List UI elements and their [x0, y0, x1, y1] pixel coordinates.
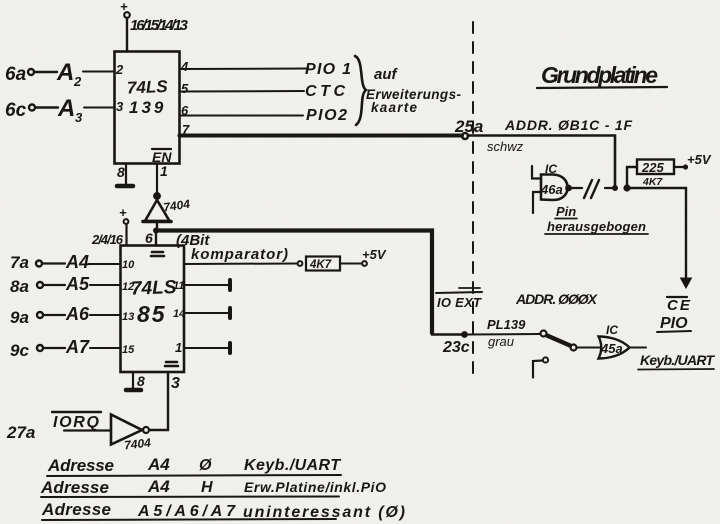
- stub end tick pin 1: [228, 343, 232, 353]
- junction node at pull-up R1: [612, 184, 631, 191]
- net label IO EXT (active low): [436, 288, 482, 310]
- net label A2: [56, 59, 82, 89]
- terminal circle at resistor R2 left: [298, 261, 303, 266]
- connector terminal 9a: [10, 308, 43, 327]
- ground at U2 pin 8: [126, 388, 141, 393]
- svg-text:3: 3: [75, 110, 83, 125]
- EN label (active-low enable) of U1: [152, 149, 172, 165]
- wire 6c to A3: [36, 106, 59, 108]
- svg-text:auf: auf: [374, 66, 399, 83]
- net label Keyb./UART: [638, 352, 715, 370]
- annotation Pin herausgebogen: [545, 204, 648, 234]
- svg-text:CTC: CTC: [305, 83, 347, 100]
- bent-out input pin bottom of U3: [533, 192, 541, 213]
- svg-text:74LS: 74LS: [131, 277, 177, 300]
- wire 9c to A7: [44, 347, 66, 349]
- wire VCC to U2 pins 2/4/16: [125, 224, 127, 246]
- wire U2 A=B output to pull-up resistor: [184, 263, 297, 266]
- svg-text:Grundplatine: Grundplatine: [541, 62, 658, 88]
- svg-text:IC: IC: [606, 323, 618, 337]
- svg-text:8: 8: [117, 164, 125, 180]
- wire U2 pin 14 stub: [184, 312, 228, 314]
- wire A2 to U1 pin 2: [83, 71, 115, 73]
- IC U2 74LS85: [121, 246, 185, 373]
- wire A4 to U2 pin 10: [88, 263, 121, 265]
- svg-text:74LS: 74LS: [127, 77, 169, 97]
- wire R1 to +5V: [674, 166, 683, 168]
- svg-text:+: +: [119, 205, 127, 220]
- wire U2 pin 3 down to inverter U6 output: [150, 372, 168, 430]
- table row 1: Adresse A4 0 Keyb./UART: [47, 455, 341, 476]
- svg-text:11: 11: [173, 280, 184, 292]
- thick wire from U5 to corner and down to node 23c: [157, 231, 432, 334]
- connector terminal 8a: [10, 277, 43, 296]
- node 23c: [461, 331, 468, 338]
- svg-text:schwz: schwz: [487, 139, 524, 154]
- +5V terminal at R2: [362, 247, 387, 266]
- wire U1 pin 8 to ground: [125, 164, 127, 185]
- wire 7a to A4: [43, 262, 66, 264]
- svg-text:CE: CE: [667, 297, 692, 314]
- wire U1 pin 4 to PIO 1: [180, 68, 309, 71]
- connector terminal 6c: [5, 100, 35, 121]
- IC U1 74LS139: [115, 52, 180, 164]
- NAND gate U3 46a (pins bent out): [540, 175, 572, 201]
- svg-text:23c: 23c: [442, 339, 470, 356]
- svg-text:3: 3: [116, 99, 124, 114]
- node 25a (open circle): [462, 133, 468, 139]
- svg-text:PIO 1: PIO 1: [305, 61, 351, 78]
- net label IORQ (active low): [52, 412, 101, 431]
- svg-text:8: 8: [137, 373, 145, 389]
- wire U1 pin 6 to PIO2: [180, 115, 304, 117]
- wire break to junction: [605, 187, 615, 189]
- svg-text:Erw.Platine/inkl.PiO: Erw.Platine/inkl.PiO: [244, 479, 386, 495]
- wire inverter U5 input down to thick bus: [156, 221, 158, 230]
- ground at U1 pin 8: [117, 184, 133, 189]
- thick wire U1 pin 7 to node 25a: [180, 134, 463, 138]
- svg-text:Pin: Pin: [556, 204, 576, 219]
- wire IORQ to inverter U6: [64, 429, 111, 431]
- svg-text:13: 13: [122, 311, 134, 323]
- table row 3: Adresse A5/A6/A7 uninteressant (0): [41, 500, 405, 521]
- arrowhead to CE of PIO: [681, 278, 692, 288]
- svg-text:45a: 45a: [600, 341, 623, 356]
- svg-text:4K7: 4K7: [309, 259, 332, 271]
- label PIO: [657, 315, 691, 332]
- svg-text:6: 6: [145, 230, 153, 246]
- svg-text:A: A: [57, 95, 75, 122]
- svg-text:25a: 25a: [454, 117, 483, 136]
- svg-text:4K7: 4K7: [642, 176, 663, 188]
- svg-text:komparator): komparator): [191, 246, 288, 263]
- svg-text:225: 225: [641, 160, 664, 175]
- svg-text:2: 2: [115, 62, 124, 77]
- svg-text:PIO2: PIO2: [306, 107, 347, 124]
- svg-text:27a: 27a: [6, 423, 35, 442]
- svg-text:grau: grau: [488, 334, 514, 349]
- svg-text:46a: 46a: [540, 182, 563, 197]
- bent-out input pin top of U3: [532, 166, 541, 179]
- wire A6 to U2 pin 13: [90, 314, 121, 316]
- svg-text:kaarte: kaarte: [371, 100, 417, 115]
- svg-text:herausgebogen: herausgebogen: [547, 219, 646, 234]
- wire U4 output: [630, 347, 647, 349]
- svg-text:4: 4: [180, 59, 189, 74]
- wire U1 pin 1 to inverter output: [156, 164, 158, 195]
- table row 2: Adresse A4 H Erw.Platine/inkl.PiO: [40, 477, 386, 497]
- wire A3 to U1 pin 3: [84, 107, 115, 109]
- svg-text:1: 1: [160, 163, 168, 179]
- wire R2 to +5V: [340, 263, 362, 265]
- svg-text:A4: A4: [147, 477, 170, 496]
- +5V terminal at R1: [683, 152, 712, 170]
- wire node 25a to corner: [468, 136, 615, 187]
- wire junction to CE arrow: [627, 188, 686, 281]
- +5V power terminal at U1 top: [120, 0, 130, 18]
- annotation auf Erweiterungs-kaarte: [366, 66, 462, 115]
- svg-text:2/4/16: 2/4/16: [91, 232, 124, 247]
- svg-text:9a: 9a: [10, 308, 29, 327]
- svg-text:1: 1: [175, 340, 182, 355]
- annotation (4Bit komparator): [176, 232, 288, 263]
- svg-text:A4: A4: [147, 455, 170, 474]
- switch S1 blade (thick): [547, 336, 570, 346]
- wire thick bus to U2 pin 6: [155, 231, 157, 246]
- wire A5 to U2 pin 12: [90, 284, 121, 286]
- svg-text:A7: A7: [65, 337, 90, 357]
- wire U2 pin 8 to ground: [132, 372, 134, 388]
- wire 6a to A2: [35, 71, 58, 73]
- svg-text:A4: A4: [65, 252, 89, 272]
- switch S1 alternate contact (open): [533, 357, 548, 377]
- svg-text:Adresse: Adresse: [41, 500, 111, 519]
- net label A3: [57, 95, 83, 125]
- wire node 23c to switch: [468, 333, 540, 336]
- svg-text:6a: 6a: [5, 64, 27, 85]
- connector terminal 7a: [10, 253, 42, 272]
- svg-text:12: 12: [122, 281, 134, 293]
- svg-text:Keyb./UART: Keyb./UART: [244, 457, 341, 474]
- wire VCC to U1 pins 16/15/14/13: [126, 18, 128, 52]
- svg-text:139: 139: [129, 98, 166, 117]
- wire U2 pin 1 stub: [184, 347, 228, 349]
- svg-text:7a: 7a: [10, 253, 29, 272]
- svg-text:10: 10: [122, 259, 135, 271]
- svg-text:15: 15: [122, 344, 135, 356]
- title Grundplatine: [537, 62, 667, 88]
- wire U1 pin 5 to CTC: [180, 90, 305, 93]
- svg-text:A5: A5: [65, 274, 90, 294]
- svg-text:2: 2: [73, 74, 82, 89]
- svg-text:6c: 6c: [5, 100, 27, 121]
- svg-text:H: H: [201, 479, 213, 496]
- net label CE (active low): [667, 297, 692, 314]
- wire U2 pin 11 stub: [184, 284, 228, 286]
- svg-text:PL139: PL139: [487, 317, 526, 332]
- svg-text:IO EXT: IO EXT: [437, 295, 482, 310]
- junction dot at U2 pin 6 tap: [153, 228, 159, 234]
- svg-text:7404: 7404: [123, 436, 151, 453]
- wire A7 to U2 pin 15: [90, 347, 121, 349]
- svg-text:85: 85: [137, 301, 167, 327]
- svg-text:3: 3: [171, 375, 180, 392]
- OR gate U4 45a: [599, 337, 630, 359]
- wire junction to R1: [627, 167, 637, 188]
- svg-text:16/15/14/13: 16/15/14/13: [130, 17, 189, 34]
- wire 9a to A6: [44, 314, 66, 316]
- svg-text:5: 5: [181, 81, 189, 96]
- svg-text:A: A: [56, 59, 74, 86]
- svg-text:Adresse: Adresse: [47, 456, 114, 475]
- svg-text:Ø: Ø: [199, 457, 212, 474]
- svg-text:Keyb./UART: Keyb./UART: [640, 352, 715, 368]
- wire break marks //: [584, 180, 599, 198]
- dashed separator line between boards: [472, 22, 474, 374]
- svg-text:A6: A6: [65, 304, 90, 324]
- resistor R2 4K7: [306, 257, 340, 272]
- wire switch to OR gate U4: [577, 347, 600, 349]
- wire corner to node 23c: [432, 333, 461, 336]
- brace grouping PIO1/CTC/PIO2: [355, 56, 366, 125]
- resistor R1 225 / 4K7: [637, 160, 674, 189]
- +5V power terminal at U2 top: [119, 205, 128, 224]
- svg-text:8a: 8a: [10, 277, 29, 296]
- inverter U6 7404: [111, 415, 152, 453]
- inverter U5 7404 (output bubble drawn as dot at apex): [143, 193, 191, 222]
- svg-text:Adresse: Adresse: [40, 478, 109, 497]
- svg-text:+5V: +5V: [687, 152, 712, 167]
- svg-text:+5V: +5V: [362, 247, 387, 262]
- wire 8a to A5: [44, 284, 66, 286]
- switch S1 common contact: [541, 331, 547, 337]
- svg-text:ADDR. ØØØX: ADDR. ØØØX: [515, 291, 599, 307]
- svg-text:PIO: PIO: [660, 315, 688, 332]
- svg-text:IORQ: IORQ: [53, 414, 100, 431]
- connector terminal 9c: [10, 341, 43, 360]
- stub end tick pin 11: [228, 280, 232, 290]
- switch S1 throw contact to gate: [571, 345, 577, 351]
- svg-text:ADDR. ØB1C - 1F: ADDR. ØB1C - 1F: [504, 117, 632, 133]
- svg-text:9c: 9c: [10, 341, 29, 360]
- svg-text:14: 14: [173, 308, 185, 320]
- connector terminal 6a: [5, 64, 34, 85]
- wire U3 output to break: [571, 187, 582, 189]
- stub end tick pin 14: [228, 308, 232, 318]
